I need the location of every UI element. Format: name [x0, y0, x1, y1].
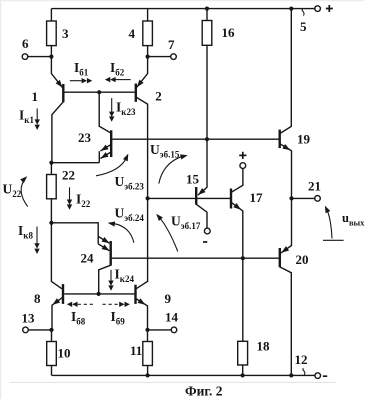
current arrow Iб8 [67, 302, 93, 327]
wire emitters 23 to node A [51, 162, 99, 164]
voltage arrow Uэб.17 [154, 212, 201, 251]
node collector 20 / bottom rail [289, 373, 293, 377]
node A: collector 1 / R22 / emitters 23 [49, 161, 53, 165]
terminal 14 [148, 310, 179, 333]
node emitter19 / emitter20 / terminal 21 [289, 196, 293, 200]
svg-text:18: 18 [257, 339, 271, 354]
transistor 9 (NPN) [136, 110, 172, 330]
svg-text:8: 8 [34, 291, 41, 306]
transistor 24 (PNP, double emitter) [81, 236, 111, 293]
node R4 / terminal 7 / emitter 2 [146, 55, 150, 59]
resistor 22 [47, 163, 75, 223]
svg-text:1: 1 [32, 89, 39, 104]
current arrow Iк8 [18, 223, 40, 254]
node R11 / bottom rail [146, 373, 150, 377]
current arrow Iк24 [108, 267, 134, 291]
node bases 8,9 / collector 24 [97, 292, 101, 296]
terminal 13 [22, 311, 52, 333]
wire node B to emitters 24 [51, 223, 98, 244]
svg-text:19: 19 [297, 132, 311, 147]
svg-text:6: 6 [22, 36, 29, 51]
resistor 18 [238, 258, 270, 375]
resistor 4 [129, 9, 153, 57]
terminal 21 (output) [292, 179, 322, 202]
node B: R22 / emitters 24 / collector 8 [49, 221, 53, 225]
wire base8-base9 [64, 293, 134, 295]
wire top supply rail [51, 8, 314, 10]
transistor 19 (NPN, output top) [280, 9, 311, 199]
svg-text:15: 15 [186, 172, 200, 187]
current arrow Iк23 [109, 98, 136, 122]
voltage arrow Uэб.23 [96, 153, 144, 192]
node base wire 24-20 / emitter 17 / R18 [241, 256, 245, 260]
svg-text:7: 7 [168, 37, 175, 52]
svg-text:Фиг. 2: Фиг. 2 [185, 384, 223, 399]
svg-text:21: 21 [308, 179, 321, 194]
current arrow I22 [67, 187, 91, 210]
svg-text:24: 24 [81, 251, 95, 266]
transistor 23 (NPN, double emitter) [78, 92, 111, 163]
current arrow Iб9 [103, 302, 130, 327]
scan fold faint line [10, 381, 336, 383]
terminal 5 (+ supply) [300, 5, 333, 34]
resistor 16 [202, 9, 235, 140]
svg-text:5: 5 [300, 19, 307, 34]
svg-text:17: 17 [250, 190, 264, 205]
voltage arrow Uэб.15 [150, 142, 188, 184]
svg-text:2: 2 [155, 89, 162, 104]
node emitter 9 / terminal 14 / R11 [145, 328, 149, 332]
resistor 10 [47, 330, 71, 376]
current arrow Iб1 [70, 60, 93, 83]
voltage arrow uвых [323, 205, 365, 241]
node R18 / bottom rail [241, 373, 245, 377]
terminal plus of input source (above 17) [239, 152, 246, 169]
transistor 20 (PNP, output bottom) [280, 198, 309, 375]
svg-text:22: 22 [62, 168, 75, 183]
terminal 6 [22, 36, 51, 59]
node bases 1,2 / collector 23 [97, 90, 101, 94]
terminal 7 [148, 37, 177, 59]
svg-text:14: 14 [165, 310, 179, 325]
svg-text:3: 3 [62, 26, 69, 41]
node collector2 line / bases 15,17 [146, 196, 150, 200]
wire base 24 to base 20 [112, 257, 279, 259]
terminal 12 (- supply) [295, 352, 328, 378]
svg-text:23: 23 [78, 130, 92, 145]
svg-text:20: 20 [296, 252, 309, 267]
svg-text:13: 13 [22, 311, 36, 326]
resistor 11 [130, 330, 152, 376]
transistor 8 (NPN) [34, 223, 63, 330]
voltage arrow U22 [3, 174, 30, 206]
voltage arrow Uэб.24 [107, 206, 144, 243]
svg-text:16: 16 [222, 25, 236, 40]
node R3 / terminal 6 / emitter 1 [49, 55, 53, 59]
terminal minus of input source (below 15) [203, 228, 210, 242]
transistor 1 (PNP, input) [32, 57, 65, 163]
transistor 15 (PNP) [186, 139, 207, 228]
wire bottom supply rail [52, 374, 316, 376]
svg-text:11: 11 [130, 343, 142, 358]
svg-text:4: 4 [129, 26, 136, 41]
node top rail / collector 19 [289, 7, 293, 11]
caption Фиг. 2 [185, 384, 223, 399]
node emitter 8 / terminal 13 / R10 [49, 328, 53, 332]
current arrow Iб2 [105, 60, 131, 82]
wire base 23 to base 19 [112, 138, 279, 140]
transistor 17 (NPN) [231, 168, 263, 258]
current arrow Iк1 [19, 108, 40, 131]
wire base1-base2 [64, 91, 134, 93]
svg-text:10: 10 [58, 346, 71, 361]
node R16 / top rail [205, 7, 209, 11]
node R16 bottom on base wire [205, 137, 209, 141]
svg-text:9: 9 [165, 291, 172, 306]
svg-text:12: 12 [295, 352, 308, 367]
resistor 3 [47, 9, 69, 57]
wire bases 15,17 [148, 197, 231, 199]
transistor 2 (PNP, input) [135, 57, 162, 110]
